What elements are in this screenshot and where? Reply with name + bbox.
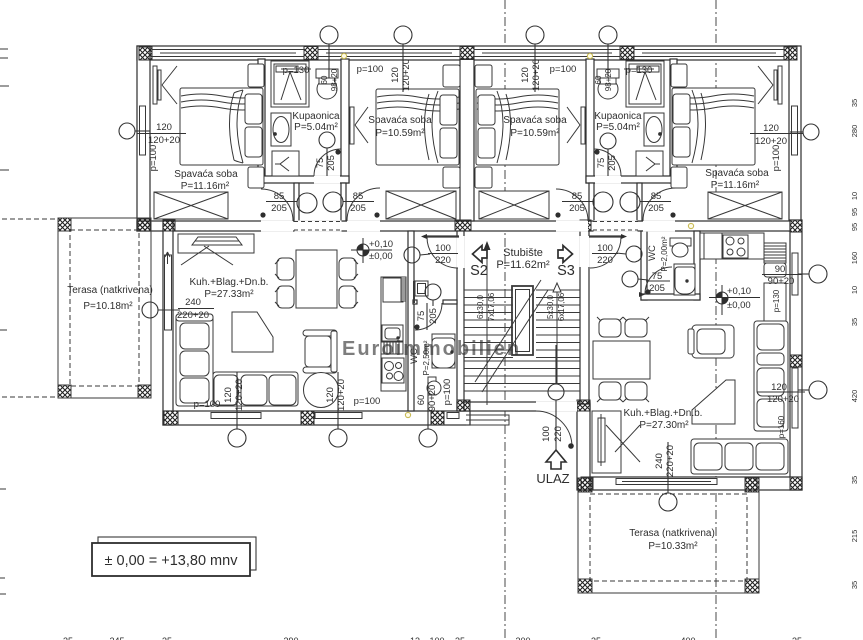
left margin ticks: [0, 49, 58, 594]
kitchen left strip: [381, 277, 406, 391]
terrace left: [58, 218, 151, 398]
bed bedroom left: [153, 64, 264, 219]
svg-text:400: 400: [680, 636, 695, 640]
wall bottom right apartment: [578, 477, 802, 490]
nightstand right top: [671, 64, 687, 87]
dim circle stair door left: [404, 247, 420, 263]
bathroom left fixtures: [271, 61, 338, 176]
toilet bath right: [597, 69, 619, 78]
hallway1 circles: [297, 193, 317, 213]
svg-text:Kupaonica: Kupaonica: [292, 111, 340, 122]
window bottom wall seg2: [315, 413, 362, 419]
wc left toilet: [428, 377, 436, 395]
svg-text:P=10.18m²: P=10.18m²: [83, 301, 133, 312]
svg-text:p=100: p=100: [357, 64, 384, 75]
wardrobe bedroom right: [708, 192, 782, 219]
svg-text:60: 60: [320, 75, 329, 84]
svg-text:p=100: p=100: [771, 145, 782, 172]
door openings (white gaps): [261, 175, 675, 411]
pier bottom wall 2: [431, 411, 444, 425]
wall hallway2 left: [589, 183, 594, 221]
mirror bedroom mid2: [581, 107, 585, 144]
door wc right arc: [645, 267, 672, 294]
svg-text:Spavaća soba: Spavaća soba: [503, 115, 567, 126]
svg-text:P=2,00m²: P=2,00m²: [660, 236, 669, 271]
wall bath2 bottom: [586, 176, 677, 183]
svg-text:205: 205: [649, 283, 665, 294]
svg-text:205: 205: [428, 308, 439, 324]
svg-text:P=27.33m²: P=27.33m²: [204, 289, 254, 300]
door arcs: [260, 149, 676, 449]
svg-text:Terasa (natkrivena): Terasa (natkrivena): [629, 528, 715, 539]
window top wall seg3: [474, 50, 620, 57]
stair lower steps: [464, 361, 580, 391]
svg-text:120: 120: [156, 122, 172, 133]
svg-text:±0,00: ±0,00: [369, 251, 393, 262]
wall wc left top: [443, 300, 457, 304]
door ulaz arc: [536, 411, 572, 447]
corner sofa left: [176, 314, 213, 406]
svg-text:10: 10: [850, 192, 859, 200]
svg-text:± 0,00 = +13,80 mnv: ± 0,00 = +13,80 mnv: [105, 553, 239, 569]
dishwasher stripes left: [381, 342, 403, 354]
wc right apartment fixtures: [670, 238, 695, 295]
svg-text:90+20: 90+20: [427, 385, 438, 412]
stair arrow right: [553, 283, 561, 292]
svg-text:120+20: 120+20: [148, 135, 180, 146]
wc right toilet: [670, 238, 691, 246]
svg-text:240: 240: [185, 297, 201, 308]
svg-text:85: 85: [274, 191, 285, 202]
mirror bedroom right: [778, 66, 782, 104]
svg-text:220: 220: [597, 255, 613, 266]
pier stair bottom left: [457, 400, 470, 411]
dim circle wc right door: [622, 271, 638, 287]
strike line p130 left: [281, 68, 311, 70]
grid circle top 1: [320, 26, 338, 44]
svg-text:p=100: p=100: [354, 396, 381, 407]
svg-text:98+20: 98+20: [330, 68, 339, 91]
kitchen counter right lower: [764, 283, 786, 332]
pier mid wall stair left: [455, 220, 471, 231]
svg-text:Stubište: Stubište: [503, 247, 543, 259]
wall bath1 left: [258, 59, 265, 183]
stair break line: [475, 280, 541, 382]
svg-text:S2: S2: [470, 263, 488, 279]
dimension circles: [119, 26, 827, 511]
svg-text:35: 35: [850, 476, 859, 484]
svg-text:120+20: 120+20: [767, 394, 799, 405]
window bottom wall seg1: [211, 413, 261, 419]
door bedroom left arc: [261, 189, 293, 221]
door stair-right apt: [590, 237, 621, 268]
S3 door arrow glyph: [558, 246, 573, 263]
entrance step: [466, 415, 509, 425]
stove right: [723, 235, 748, 258]
window west living wall: [165, 255, 172, 330]
stove left: [382, 358, 404, 383]
svg-text:Kupaonica: Kupaonica: [594, 111, 642, 122]
bed bedroom right: [671, 64, 782, 219]
wall mid bedrooms: [460, 59, 474, 221]
wall stair left: [457, 231, 464, 411]
svg-text:13: 13: [410, 636, 420, 640]
wall bath1 bottom: [258, 176, 349, 183]
svg-text:100: 100: [429, 636, 444, 640]
svg-text:420: 420: [850, 390, 859, 403]
pier mid wall left corner: [137, 219, 150, 231]
chairs right table: [599, 319, 621, 337]
wall kitchen-wc left apt: [408, 231, 414, 411]
mirror bedroom mid1: [350, 107, 354, 144]
svg-text:75: 75: [596, 158, 607, 169]
sofa row right: [691, 439, 788, 474]
svg-text:35: 35: [850, 99, 859, 107]
section line S3: [715, 0, 717, 640]
armchair right: [692, 325, 734, 358]
svg-text:6x17,06: 6x17,06: [557, 292, 566, 321]
svg-text:P=11.62m²: P=11.62m²: [496, 259, 550, 271]
svg-text:p=100: p=100: [550, 64, 577, 75]
kitchen counter right: [700, 233, 764, 259]
svg-text:P=10.33m²: P=10.33m²: [648, 541, 698, 552]
svg-text:90+20: 90+20: [768, 276, 795, 287]
washing machine left: [272, 151, 299, 176]
svg-text:100: 100: [541, 426, 552, 442]
nightstand left top: [248, 64, 264, 87]
wall wc right apt east: [694, 231, 700, 300]
bathroom right fixtures: [597, 61, 664, 176]
svg-text:120+20: 120+20: [234, 379, 245, 411]
pier bottom right apt 2: [745, 477, 757, 490]
svg-text:p=130: p=130: [772, 289, 781, 312]
wall bath1 right: [341, 59, 349, 183]
svg-text:90: 90: [775, 264, 786, 275]
dining table right: [593, 341, 650, 379]
living right furniture: [592, 233, 788, 474]
svg-text:100: 100: [435, 243, 451, 254]
wall stair-terrace vertical: [577, 404, 590, 490]
svg-text:120: 120: [520, 67, 531, 83]
pier top wall 1: [304, 47, 318, 60]
stair guide line right: [556, 291, 558, 384]
svg-text:+0,10: +0,10: [369, 239, 393, 250]
svg-text:Kuh.+Blag.+Dn.b.: Kuh.+Blag.+Dn.b.: [190, 277, 269, 288]
door bedroom mid1 arc: [347, 188, 380, 221]
west wall arrow: [165, 252, 170, 264]
coffee table right: [692, 380, 735, 424]
stair treads left flight: [464, 290, 513, 358]
sofa column right: [754, 321, 788, 431]
bed bedroom mid1: [350, 65, 460, 219]
svg-text:245: 245: [109, 636, 124, 640]
hallway1 floor dashes: [294, 222, 638, 231]
sink left: [271, 113, 291, 146]
staircase: [464, 241, 580, 405]
wardrobe bedroom mid1: [386, 191, 456, 219]
svg-text:p=130: p=130: [626, 65, 653, 76]
wall hallway1 left: [294, 183, 299, 221]
svg-text:60: 60: [594, 75, 603, 84]
pier top-right corner: [784, 47, 797, 60]
door bottom wall seg3: [447, 413, 459, 419]
level marker right: [709, 285, 760, 315]
svg-text:215: 215: [850, 530, 859, 543]
grid circle top 3: [526, 26, 544, 44]
nightstand mid1 top: [443, 65, 460, 87]
svg-text:120: 120: [325, 387, 336, 403]
svg-text:120+20: 120+20: [531, 59, 542, 91]
svg-text:P=10.59m²: P=10.59m²: [375, 128, 425, 139]
dim circle bottom wall 1: [228, 429, 246, 447]
svg-text:35: 35: [850, 581, 859, 589]
wc left sink: [432, 334, 455, 368]
wall hallway1 right: [341, 183, 346, 221]
svg-text:220: 220: [553, 426, 564, 442]
shaft box left hall: [415, 281, 428, 296]
dim circle bottom wall 2: [329, 429, 347, 447]
svg-text:205: 205: [648, 203, 664, 214]
svg-text:P=10.59m²: P=10.59m²: [510, 128, 560, 139]
svg-text:120: 120: [223, 387, 234, 403]
right margin numbers: [850, 99, 859, 589]
nightstand mid2 top: [475, 65, 492, 87]
rotated dimension labels: [148, 59, 786, 477]
window east wall bedroom: [792, 106, 798, 155]
fridge right: [764, 243, 786, 263]
wc left apartment fixtures: [415, 281, 455, 395]
svg-text:35: 35: [162, 636, 172, 640]
wall top: [137, 46, 797, 60]
svg-text:P=27.30m²: P=27.30m²: [639, 420, 689, 431]
svg-text:p=100: p=100: [442, 379, 453, 406]
svg-text:Spavaća soba: Spavaća soba: [705, 168, 769, 179]
grid circle top 2: [394, 26, 412, 44]
door bedroom right arc: [643, 188, 676, 221]
bottom margin truncated numbers: [63, 636, 802, 640]
tv cabinet right: [592, 411, 621, 473]
pier bottom right apt 1: [581, 477, 593, 490]
dim circle bottom wall 3: [419, 429, 437, 447]
svg-text:P=5.04m²: P=5.04m²: [596, 122, 640, 133]
pier east wall mid: [790, 355, 802, 367]
pier mid wall right corner: [790, 220, 802, 232]
svg-text:WC: WC: [647, 245, 658, 261]
dim circle terrace bottom: [659, 493, 677, 511]
svg-text:P=11.16m²: P=11.16m²: [181, 181, 230, 192]
hallway2 floor dashes: [593, 222, 638, 231]
svg-text:205: 205: [569, 203, 585, 214]
svg-text:75: 75: [315, 158, 326, 169]
sink right: [644, 113, 664, 146]
wall bath2 right: [670, 59, 677, 183]
nightstand mid1 bottom: [443, 167, 460, 188]
svg-text:P=11.16m²: P=11.16m²: [711, 180, 760, 191]
window east wall kitchen: [792, 253, 798, 295]
shower right: [626, 61, 664, 107]
svg-text:240: 240: [654, 453, 665, 469]
wall left upper: [137, 46, 150, 231]
door bath2 arc: [594, 149, 621, 176]
svg-text:7x17,06: 7x17,06: [487, 292, 496, 321]
svg-text:100: 100: [597, 243, 613, 254]
wall mid horizontal: [137, 221, 801, 231]
svg-text:35: 35: [591, 636, 601, 640]
window top wall seg1: [152, 50, 304, 57]
bed bedroom mid2: [475, 65, 585, 219]
stair arrow left: [484, 241, 491, 250]
section line S2: [504, 0, 506, 640]
dim circle east living window: [809, 381, 827, 399]
svg-text:35: 35: [63, 636, 73, 640]
window east wall living: [792, 368, 798, 428]
window west wall bedroom1: [140, 106, 146, 155]
svg-text:ULAZ: ULAZ: [536, 471, 569, 486]
svg-text:P=5.04m²: P=5.04m²: [294, 122, 338, 133]
pier bottom right apt corner: [790, 477, 802, 490]
svg-text:85: 85: [572, 191, 583, 202]
svg-text:390: 390: [283, 636, 298, 640]
pier stair bottom right: [577, 400, 590, 411]
svg-text:p=160: p=160: [777, 415, 786, 438]
svg-text:6x30,0: 6x30,0: [476, 294, 485, 319]
wall bottom left apartment: [163, 411, 470, 425]
svg-text:220: 220: [435, 255, 451, 266]
wall stair right: [580, 231, 589, 411]
svg-text:95: 95: [850, 208, 859, 216]
wall living west: [163, 221, 173, 425]
svg-text:205: 205: [350, 203, 366, 214]
door stair-left apt: [427, 237, 458, 268]
wc right sink: [674, 264, 695, 295]
svg-text:220+20: 220+20: [177, 310, 209, 321]
svg-text:85: 85: [651, 191, 662, 202]
svg-text:S3: S3: [557, 263, 575, 279]
elevation box: [92, 537, 256, 576]
nightstand mid2 bottom: [475, 167, 492, 188]
svg-text:205: 205: [607, 155, 618, 171]
wall bath2 left: [586, 59, 594, 183]
stair railing: [512, 286, 533, 355]
yellow dots: [341, 53, 693, 417]
wall wc right apt south: [641, 294, 700, 300]
svg-text:300: 300: [515, 636, 530, 640]
pier top-left corner: [139, 47, 152, 60]
svg-text:98+20: 98+20: [604, 68, 613, 91]
pier mid wall stair right: [580, 220, 591, 231]
svg-text:120+20: 120+20: [336, 379, 347, 411]
svg-text:120: 120: [763, 123, 779, 134]
svg-text:280: 280: [850, 125, 859, 138]
pier top wall 2: [620, 47, 634, 60]
shower left: [271, 61, 309, 107]
window top wall seg2: [318, 50, 460, 57]
hallway2 circles: [593, 192, 613, 212]
dim circle stair door right: [626, 246, 642, 262]
svg-text:35: 35: [792, 636, 802, 640]
svg-text:10: 10: [850, 286, 859, 294]
svg-text:p=130: p=130: [283, 65, 310, 76]
dim circle wc left door: [425, 284, 441, 300]
dim circle bath2 door: [600, 133, 616, 149]
svg-text:Euroimmobilien: Euroimmobilien: [342, 338, 521, 360]
dim circle terrace left: [142, 302, 158, 318]
svg-text:Spavaća soba: Spavaća soba: [174, 169, 238, 180]
dim circle stair: [548, 384, 564, 400]
svg-text:120: 120: [390, 67, 401, 83]
nightstand right bottom: [671, 167, 687, 188]
wall wc right apt west: [641, 231, 647, 300]
svg-text:205: 205: [271, 203, 287, 214]
dim circle window left bedroom: [119, 123, 135, 139]
svg-text:120+20: 120+20: [401, 59, 412, 91]
svg-text:205: 205: [326, 155, 337, 171]
ulaz arrow: [546, 450, 566, 469]
window bottom right apt: [616, 479, 717, 485]
stair guide line left: [486, 244, 488, 405]
fridge left: [383, 278, 403, 302]
svg-text:75: 75: [652, 271, 663, 282]
terrace bottom right: [578, 478, 759, 593]
tv cabinet left: [178, 234, 254, 253]
svg-text:±0,00: ±0,00: [727, 300, 751, 311]
wall stair bottom: [457, 402, 590, 411]
dim circle bath1 door: [319, 132, 335, 148]
armchair left: [303, 330, 337, 336]
stair flight labels: [476, 292, 566, 321]
coffee table left: [232, 312, 273, 352]
kitchen sink unit right: [764, 263, 786, 277]
stair treads right flight: [536, 290, 580, 358]
washing machine right: [636, 151, 663, 176]
svg-text:Kuh.+Blag.+Dn.b.: Kuh.+Blag.+Dn.b.: [624, 408, 703, 419]
room label bedroom left: [67, 111, 769, 552]
door wc left arc: [415, 303, 442, 330]
door bedroom mid2 arc: [556, 189, 588, 221]
svg-text:120: 120: [771, 382, 787, 393]
pier mid wall west living: [163, 220, 175, 231]
pier bottom wall sw corner: [164, 411, 178, 425]
wardrobe bedroom mid2: [479, 191, 549, 219]
dim circle east kitchen window: [809, 265, 827, 283]
wall right apartment east: [790, 220, 802, 490]
window top wall seg4: [634, 50, 784, 57]
dining table left: [296, 250, 337, 308]
nightstand left bottom: [248, 167, 264, 188]
level marker left: [351, 238, 393, 263]
chairs left table: [277, 258, 294, 280]
grid circle top 4: [599, 26, 617, 44]
toilet bath left: [316, 69, 338, 78]
svg-text:60: 60: [416, 395, 427, 406]
svg-text:35: 35: [455, 636, 465, 640]
door bath1 arc: [314, 149, 341, 176]
living left furniture: [165, 234, 358, 408]
svg-text:75: 75: [416, 311, 427, 322]
svg-text:Terasa (natkrivena): Terasa (natkrivena): [67, 285, 153, 296]
pier bottom wall 1: [301, 411, 314, 425]
svg-text:160: 160: [850, 252, 859, 265]
wardrobe bedroom left: [154, 192, 228, 219]
round table left: [304, 373, 339, 408]
wall hallway2 right: [637, 183, 642, 221]
mirror bedroom left: [153, 66, 157, 104]
pier top wall mid: [460, 47, 474, 60]
svg-text:p=100: p=100: [194, 399, 221, 410]
dim circle window right bedroom: [803, 124, 819, 140]
svg-text:220+20: 220+20: [665, 445, 676, 477]
svg-text:95: 95: [850, 223, 859, 231]
